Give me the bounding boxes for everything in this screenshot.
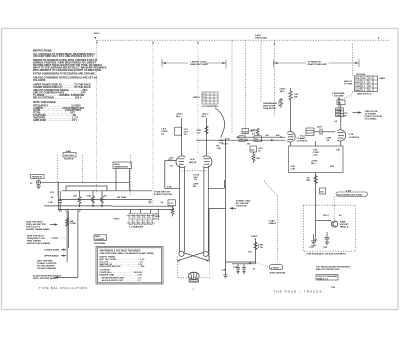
- svg-text:B&W: B&W: [114, 164, 120, 166]
- svg-text:LOWER BAND: LOWER BAND: [44, 249, 59, 252]
- dashed frame: [177, 257, 179, 278]
- 47pf cap: [319, 129, 321, 136]
- dashed stub from boundary to table: [352, 44, 354, 76]
- svg-text:V-1B: V-1B: [349, 134, 354, 136]
- dotted link to text arrow: [50, 237, 66, 239]
- svg-text:450-2: 450-2: [94, 32, 100, 35]
- svg-text:(+B): (+B): [310, 247, 315, 249]
- pulse note arrow: [353, 111, 383, 120]
- svg-text:VACUUM TUBE VOLT. AT A LINE VO: VACUUM TUBE VOLT. AT A LINE VOLTAGE OF 1…: [33, 55, 94, 58]
- svg-text:B 2: B 2: [203, 97, 206, 99]
- svg-text:1.8K: 1.8K: [217, 148, 222, 150]
- svg-text:1K: 1K: [249, 263, 252, 265]
- dimension line: [162, 59, 359, 69]
- s-curve from table to bus: [215, 108, 225, 138]
- resistor legs: [78, 191, 81, 207]
- IF transformer ladder: [114, 210, 160, 229]
- dial cord assembly: [154, 161, 224, 291]
- svg-text:REAR TUNER ANT: REAR TUNER ANT: [308, 63, 328, 66]
- small components inside tuner: [48, 191, 127, 212]
- svg-text:1-2 HEATERS: 1-2 HEATERS: [129, 225, 144, 228]
- svg-text:V2-A: V2-A: [190, 158, 195, 161]
- svg-text:1.5K: 1.5K: [219, 143, 224, 145]
- center-right vertical trunk: [209, 140, 256, 278]
- 4.7K component on rail: [149, 200, 176, 206]
- svg-text:18K: 18K: [240, 139, 244, 141]
- svg-text:RELAY EXTERNAL . . . . . . . .: RELAY EXTERNAL . . . . . . . . . . . . .…: [33, 97, 82, 100]
- svg-text:3.3K: 3.3K: [167, 187, 172, 189]
- svg-text:TML: TML: [355, 78, 360, 80]
- tick arrow at x97: [96, 41, 98, 44]
- left input terminal: [30, 175, 129, 210]
- svg-text:1N64 DIODE: 1N64 DIODE: [263, 107, 276, 110]
- svg-text:47pF: 47pF: [317, 126, 323, 129]
- svg-text:1 MEG: 1 MEG: [251, 236, 258, 238]
- svg-text:GND: GND: [355, 86, 360, 88]
- svg-text:22K: 22K: [343, 115, 347, 117]
- svg-text:WITH RESPECT TO CHASSIS GND EX: WITH RESPECT TO CHASSIS GND EXCEPT AS IN…: [33, 69, 102, 72]
- 1 meg branch: [232, 236, 286, 275]
- svg-text:75 OHM: 75 OHM: [344, 84, 352, 86]
- grounds inside box: [313, 234, 315, 241]
- left instruction texts: [26, 222, 67, 280]
- svg-text:USED ANT LEAD: USED ANT LEAD: [190, 63, 208, 66]
- cluster left of B+ box: [250, 146, 263, 163]
- transistor symbol: [316, 220, 331, 222]
- svg-text:(M 300Ω): (M 300Ω): [356, 74, 366, 76]
- svg-text:(1 MEG): (1 MEG): [271, 267, 280, 269]
- svg-text:TYPE B&L OSCILLATORS: TYPE B&L OSCILLATORS: [39, 286, 88, 290]
- svg-text:4.7K: 4.7K: [258, 246, 263, 249]
- svg-text:(SEE NOTE 3): (SEE NOTE 3): [357, 94, 372, 96]
- svg-text:PULLEY: PULLEY: [190, 281, 199, 283]
- svg-text:10K: 10K: [336, 150, 340, 152]
- svg-text:ARE UPC RATED 630V: ARE UPC RATED 630V: [316, 268, 340, 271]
- svg-text:47K: 47K: [153, 218, 157, 221]
- svg-text:UPPER BAND: UPPER BAND: [44, 255, 59, 258]
- top horizontal dashed boundary: [97, 39, 389, 41]
- svg-text:C 3: C 3: [203, 100, 206, 102]
- svg-text:39K: 39K: [306, 180, 310, 182]
- svg-text:HEATER LINE . . . . . . . . .: HEATER LINE . . . . . . . . . . . . . . …: [100, 273, 143, 276]
- svg-text:(PROCESSOR): (PROCESSOR): [270, 273, 286, 275]
- svg-text:SHD: SHD: [355, 90, 360, 92]
- svg-text:GENERATOR: GENERATOR: [114, 166, 128, 169]
- svg-text:ADJUST EACH BAND): ADJUST EACH BAND): [27, 242, 50, 245]
- X cross: [183, 253, 209, 261]
- caps to ground near trunk bottom: [222, 264, 246, 274]
- tuning only note: [229, 201, 251, 210]
- main IF bus: [196, 128, 286, 150]
- svg-text:2.2K: 2.2K: [87, 196, 92, 198]
- svg-text:OF EACH RANGE): OF EACH RANGE): [37, 267, 56, 270]
- svg-text:(B+): (B+): [280, 91, 285, 93]
- fold dotted line right of notes: [96, 40, 98, 196]
- svg-text:B+R (SOME 120V, 630V): B+R (SOME 120V, 630V): [337, 194, 362, 196]
- svg-text:10K: 10K: [73, 196, 77, 198]
- connector terminal table top right: [344, 76, 385, 96]
- L antenna arrow: [332, 92, 345, 117]
- component boxes on bus: [239, 136, 245, 142]
- svg-text:(B+): (B+): [311, 163, 316, 165]
- VHF amplifier tubes: [169, 156, 212, 188]
- dashed service box bottom right: [303, 205, 355, 255]
- svg-text:ANATOMUS 3 VOLTAGE TN KONGO: ANATOMUS 3 VOLTAGE TN KONGO: [100, 250, 141, 253]
- svg-text:FOLLOWS:: FOLLOWS:: [33, 79, 46, 82]
- 15K vertical branch: [66, 211, 77, 262]
- svg-text:UNTIL PROPER BAND: UNTIL PROPER BAND: [33, 277, 57, 280]
- cord pair squiggle extra: [171, 206, 174, 216]
- vertical dashed x274.5: [274, 40, 276, 116]
- long vertical branch to bottom: [54, 211, 78, 278]
- svg-text:EXTERNAL: EXTERNAL: [94, 242, 106, 245]
- svg-text:OSC BLK: OSC BLK: [64, 155, 74, 157]
- svg-text:10K: 10K: [256, 158, 260, 160]
- vertical dotted x198: [197, 44, 199, 154]
- svg-text:A CONVERTER: A CONVERTER: [202, 105, 218, 108]
- V1-B triode: [337, 130, 359, 141]
- svg-text:AMPLIFIER . . . . . . . . . .: AMPLIFIER . . . . . . . . . . . . . . . …: [33, 119, 78, 122]
- vertical dotted boundary x153: [152, 44, 154, 205]
- svg-text:2.2K: 2.2K: [222, 270, 227, 272]
- bottom right small texts: [316, 266, 351, 281]
- pulleys: [179, 251, 184, 256]
- resistor squiggle on right wire: [205, 126, 208, 134]
- svg-text:1.5K: 1.5K: [48, 202, 53, 204]
- svg-text:+MAX: +MAX: [379, 77, 386, 80]
- svg-text:✺: ✺: [95, 37, 97, 40]
- svg-text:TERM. A: TERM. A: [340, 225, 349, 228]
- svg-text:RATIO: RATIO: [193, 96, 200, 99]
- svg-text:NE TRAP: NE TRAP: [117, 196, 127, 199]
- voltage chart box: [96, 247, 163, 285]
- svg-text:REGULATE ADJUST . . . . . . .: REGULATE ADJUST . . . . . . . . . . . . …: [100, 265, 146, 268]
- svg-text:75 Ω WIRE): 75 Ω WIRE): [365, 118, 377, 120]
- vertical dashed x232: [231, 40, 233, 134]
- svg-text:45MC: 45MC: [300, 137, 306, 140]
- B+ output wire down: [306, 173, 326, 248]
- svg-text:A 1: A 1: [203, 93, 206, 96]
- svg-text:TABLE 1-2: TABLE 1-2: [317, 277, 329, 280]
- notes text block: [33, 50, 107, 122]
- B&W generator label box: [113, 162, 132, 191]
- svg-text:(B+): (B+): [202, 116, 207, 118]
- vertical dashed x245.5: [245, 40, 247, 136]
- svg-text:12.8 V: 12.8 V: [323, 215, 330, 217]
- svg-text:EXTRA CONDENSERS AT RECEIVERS: EXTRA CONDENSERS AT RECEIVERS ARE CERAMI…: [33, 73, 96, 76]
- svg-text:SOUND TUNER BAND): SOUND TUNER BAND): [26, 228, 50, 231]
- 1.5K resistor bridged left: [175, 127, 182, 135]
- svg-text:+175: +175: [313, 154, 319, 156]
- svg-text:(SEE PERFORM LABEL TOLERANCE C: (SEE PERFORM LABEL TOLERANCE CHART HERE): [100, 252, 155, 255]
- svg-text:4·: 4·: [378, 37, 380, 40]
- germanium detector cluster: [263, 88, 299, 132]
- gnd chassis label: [94, 235, 107, 245]
- svg-text:COND: COND: [70, 223, 77, 225]
- tick arrow at x153: [152, 41, 154, 44]
- V1-A triode: [287, 132, 307, 143]
- B+R oval tag: [334, 190, 367, 206]
- svg-text:ALIGN B LEVEL OUT . . . . .: ALIGN B LEVEL OUT . . . . . . . . . . . …: [102, 279, 142, 282]
- capacitor leg: [59, 191, 61, 201]
- svg-text:CHASSIS: CHASSIS: [95, 238, 105, 241]
- B+ filter box: [289, 141, 344, 173]
- drum: [188, 272, 199, 279]
- svg-text:3.3K: 3.3K: [251, 130, 256, 132]
- tuner sub-box rails: [44, 186, 174, 210]
- 10K resistor squiggle: [289, 88, 292, 104]
- diamond junctions: [59, 209, 62, 212]
- svg-text:POSITION: POSITION: [236, 205, 247, 207]
- +265V supply wires to VHF tubes: [161, 114, 209, 156]
- short dashed verticals of tuner shield: [57, 155, 59, 196]
- 45MC IF transformer small box left of V1-B: [300, 126, 335, 143]
- svg-text:6BQ7A: 6BQ7A: [189, 161, 197, 164]
- svg-text:FOR MORE INFO ON BUILT-IN PART: FOR MORE INFO ON BUILT-IN PARTS: [307, 253, 347, 256]
- svg-text:SLATE POSITION: SLATE POSITION: [154, 193, 172, 196]
- svg-text:10K: 10K: [294, 96, 298, 98]
- svg-text:SOURCE: SOURCE: [64, 159, 74, 161]
- svg-text:TRADE IN: TRADE IN: [32, 176, 43, 179]
- svg-text:2.2K: 2.2K: [291, 168, 296, 170]
- svg-text:47K: 47K: [330, 165, 334, 168]
- svg-text:41.25: 41.25: [243, 130, 249, 133]
- svg-text:1/2 6BZ7A: 1/2 6BZ7A: [349, 136, 360, 139]
- svg-text:ANT: ANT: [355, 81, 360, 84]
- svg-text:TWIN LEAD: TWIN LEAD: [255, 37, 268, 40]
- svg-text:1/2 6BZ7A: 1/2 6BZ7A: [297, 140, 308, 143]
- svg-text:THE RACE – TRACES: THE RACE – TRACES: [274, 290, 323, 294]
- coax dashed route: [264, 181, 278, 262]
- svg-text:CABLE: CABLE: [269, 222, 277, 225]
- long vertical supply wire to V1-B: [334, 100, 348, 130]
- svg-text:SPOT: SPOT: [114, 219, 121, 221]
- svg-text:(B+): (B+): [176, 116, 181, 118]
- ratio table (mixer socket): [193, 92, 225, 138]
